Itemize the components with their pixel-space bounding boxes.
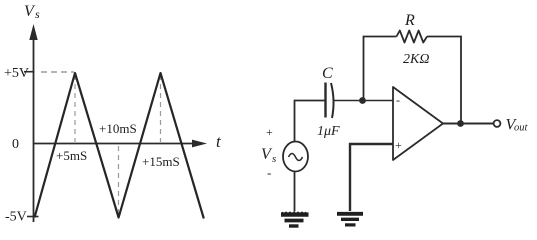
- svg-text:+5mS: +5mS: [56, 148, 87, 163]
- ground (source): [281, 212, 309, 226]
- svg-text:R: R: [404, 12, 415, 29]
- tick -5V: [27, 216, 39, 218]
- op-amp U1: [393, 87, 443, 160]
- capacitor C: [326, 83, 334, 119]
- wire: source top up and right to capacitor: [295, 101, 326, 143]
- svg-text:+: +: [395, 138, 402, 152]
- svg-text:-: -: [267, 165, 271, 180]
- sine symbol inside source: [289, 154, 303, 161]
- t-axis arrowhead: [192, 140, 207, 148]
- source Vs (sine source): [283, 142, 308, 172]
- ground (op-amp non-inverting): [337, 214, 363, 225]
- svg-text:+5V: +5V: [4, 66, 29, 81]
- svg-text:s: s: [272, 153, 276, 165]
- svg-text:+15mS: +15mS: [142, 154, 180, 169]
- svg-text:s: s: [35, 7, 40, 21]
- y-axis: [33, 38, 35, 222]
- svg-text:0: 0: [12, 137, 19, 152]
- svg-text:-5V: -5V: [5, 210, 27, 225]
- wire: source bottom to ground: [294, 172, 296, 212]
- svg-text:-: -: [396, 93, 400, 107]
- wire: capacitor to op-amp inverting input: [334, 100, 393, 102]
- svg-text:+: +: [266, 125, 273, 139]
- output terminal (open circle): [494, 120, 501, 127]
- dashed drop at first trough: [118, 146, 120, 214]
- svg-text:out: out: [514, 123, 529, 134]
- node: feedback junction dot: [359, 97, 366, 104]
- wire: op-amp output to terminal: [443, 123, 494, 125]
- wire: non-inverting input to ground: [350, 144, 393, 211]
- svg-text:1μF: 1μF: [317, 124, 340, 139]
- svg-text:C: C: [322, 65, 333, 82]
- dashed drop at second peak: [160, 75, 162, 142]
- svg-text:+10mS: +10mS: [99, 121, 137, 136]
- dashed drop at first peak: [74, 75, 76, 142]
- svg-text:2KΩ: 2KΩ: [403, 52, 429, 67]
- tick +5V: [24, 71, 35, 73]
- wire: resistor right to output node: [427, 37, 461, 122]
- t-axis: [33, 143, 196, 145]
- y-axis arrowhead: [29, 24, 37, 40]
- node: output junction dot: [457, 120, 464, 127]
- dashed level line +5V to first peak: [41, 71, 74, 73]
- resistor R (zigzag): [397, 31, 428, 43]
- triangle waveform: [35, 73, 204, 219]
- wire: junction up to feedback resistor: [364, 37, 397, 101]
